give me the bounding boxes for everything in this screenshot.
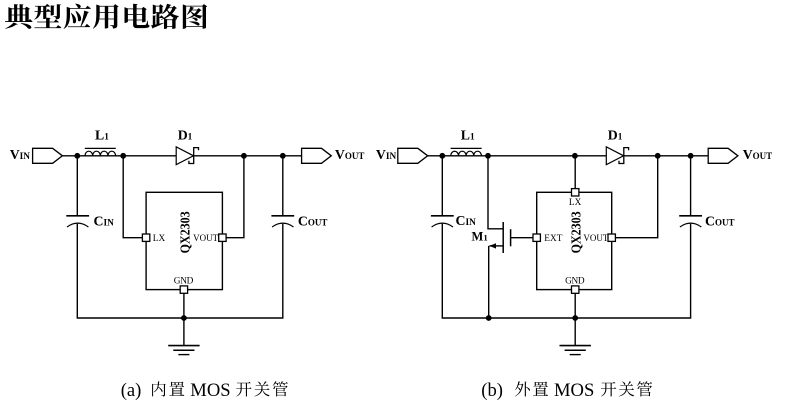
wire VOUT pin to rail (right) [615,156,657,238]
svg-text:(a): (a) [121,380,142,401]
inductor L1 (left) [85,151,116,156]
input flag VIN (left) [33,148,63,163]
pin EXT (right) [533,234,540,241]
wire CIN branch vertical (left) [76,156,78,216]
caption (b) 外置 [515,381,548,396]
wire LX pin to rail (right) [574,156,576,189]
junction dot bottom rail (left) [181,315,187,321]
svg-text:VOUT: VOUT [583,233,608,243]
junction dots top rail (right) [439,153,445,159]
junction dots bottom rail (right) [486,315,492,321]
svg-text:(b): (b) [481,380,503,401]
caption (a) 内置 [152,381,184,396]
caption (b) 开关管 [601,381,652,396]
wire VOUT pin to rail (left) [226,156,244,238]
wire top rail (right) [428,155,709,157]
svg-text:LX: LX [153,234,166,244]
caption (a) 开关管 [236,381,288,396]
pin GND (left) [183,293,185,345]
capacitor COUT (left) [282,156,284,216]
title 典型应用电路图 [5,4,207,29]
op chip U1 QX2303 box (left) [146,192,222,289]
wire CIN branch vertical (right) [441,156,443,216]
ground symbol (left) [168,345,199,347]
pin GND (right) [574,293,576,345]
capacitor CIN (right) [431,215,454,217]
pin VOUT (right) [608,234,615,241]
input flag VIN (right) [398,148,428,163]
svg-text:EXT: EXT [544,234,562,244]
ground symbol (right) [560,345,591,347]
transistor M1 source arrow [489,243,496,248]
output flag VOUT (left) [302,148,332,163]
junction dots top rail (left) [74,153,80,159]
chip U2 QX2303 box (right) [537,192,612,289]
transistor M1 channel bar [502,222,504,253]
pin LX (left) [142,234,149,241]
diode D1 (left) [176,147,193,165]
svg-text:LX: LX [569,198,582,208]
transistor M1 gate lead [511,237,533,239]
svg-text:M1: M1 [472,229,488,243]
svg-text:VOUT: VOUT [193,233,218,243]
svg-text:QX2303: QX2303 [568,211,583,253]
svg-text:GND: GND [174,277,194,287]
transistor M1 drain wire [488,156,503,229]
output flag VOUT (right) [708,148,738,163]
capacitor CIN (left) [66,215,89,217]
svg-text:GND: GND [565,277,585,287]
transistor M1 gate bar [510,229,512,246]
inductor L1 (right) [451,151,482,156]
wire top rail (left) [62,155,301,157]
svg-text:MOS: MOS [190,380,230,401]
svg-text:QX2303: QX2303 [177,211,192,253]
capacitor COUT (right) [690,156,692,216]
pin LX (right, top) [572,189,579,196]
transistor M1 source wire [489,245,503,247]
wire LX branch (left) [123,156,142,238]
diode D1 (right) [606,147,623,165]
svg-text:MOS: MOS [554,380,594,401]
pin VOUT (left) [219,234,226,241]
